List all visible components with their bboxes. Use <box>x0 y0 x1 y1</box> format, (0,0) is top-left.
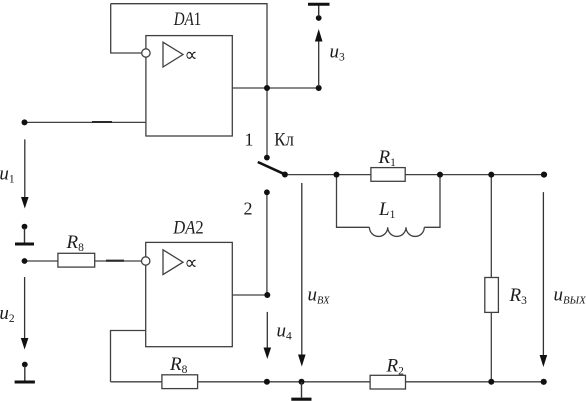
arrow u4 <box>264 312 272 359</box>
switch terminal 1 <box>264 155 270 161</box>
svg-text:Кл: Кл <box>274 131 294 151</box>
resistor R2 <box>370 375 405 389</box>
wire DA2 feedback <box>111 331 146 382</box>
wire node2 to R8 <box>25 260 59 262</box>
inductor L1 <box>369 227 424 236</box>
ground G4 top <box>308 4 330 21</box>
arrow uBX <box>298 183 306 367</box>
wire DA1 feedback left <box>111 4 142 53</box>
switch pole <box>282 172 288 178</box>
ground G3 bottom <box>291 382 311 399</box>
resistor R3 <box>485 278 499 313</box>
node rail R3 top <box>488 172 494 178</box>
node DA2 output junction <box>264 292 270 298</box>
node rail L1 right <box>437 172 443 178</box>
wire R3 bottom <box>490 312 492 381</box>
switch terminal 2 <box>264 189 270 195</box>
arrow uBYX <box>540 192 548 367</box>
wire L1 branch <box>337 175 370 228</box>
wire DA2 output <box>232 294 267 296</box>
resistor R8 feedback <box>162 375 198 389</box>
op-amp U1 DA1 box <box>146 36 232 136</box>
op-amp U2 DA2 box <box>146 242 233 346</box>
resistor R1 <box>371 168 405 182</box>
wire R3 top <box>490 175 492 278</box>
node bottom rail ground <box>299 379 305 385</box>
node bottom rail R3 <box>488 379 494 385</box>
ground G1 <box>15 224 34 244</box>
wire bottom rail <box>111 381 544 383</box>
svg-text:∝: ∝ <box>185 45 198 66</box>
input dash DA2 <box>106 260 124 262</box>
wire DA1 output <box>232 87 318 89</box>
arrow u3 <box>315 29 323 87</box>
node input 2 <box>22 258 28 264</box>
input dash DA1 <box>92 121 112 123</box>
wire top rail <box>285 174 544 176</box>
switch blade <box>258 162 285 174</box>
wire L1 right <box>424 175 440 228</box>
svg-text:∝: ∝ <box>185 253 198 274</box>
node bottom rail right end <box>541 379 547 385</box>
svg-text:1: 1 <box>245 130 254 150</box>
svg-text:DA2: DA2 <box>172 217 203 238</box>
arrow u2 <box>21 277 29 350</box>
node bottom rail u4 <box>264 379 270 385</box>
op-amp U1 inverting circle <box>142 49 150 57</box>
arrow u1 <box>21 139 29 208</box>
op-amp U2 triangle <box>163 250 183 275</box>
node DA1 output junction <box>264 85 270 91</box>
op-amp U1 triangle <box>163 42 183 67</box>
wire terminal 2 to DA2 output node <box>266 192 268 295</box>
wire DA1 feedback top <box>111 4 267 88</box>
wire R8 to DA2 input <box>95 260 142 262</box>
wire switch pole to terminal 1 <box>266 88 268 158</box>
resistor R8 input <box>58 253 95 267</box>
svg-text:2: 2 <box>244 198 253 218</box>
svg-text:DA1: DA1 <box>173 9 201 30</box>
ground G2 <box>15 362 35 382</box>
wire DA1 input <box>25 121 146 123</box>
node u3 foot <box>316 85 322 91</box>
node rail right end <box>541 172 547 178</box>
node rail L1 left <box>334 172 340 178</box>
op-amp U2 inverting circle <box>142 257 150 265</box>
node input 1 <box>22 119 28 125</box>
